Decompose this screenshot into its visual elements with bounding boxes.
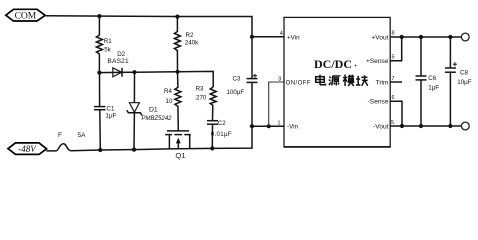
svg-text:-Vin: -Vin	[287, 124, 299, 131]
svg-text:+Vin: +Vin	[287, 34, 300, 41]
svg-text:10: 10	[166, 98, 173, 105]
svg-text:PMBZ5242: PMBZ5242	[142, 116, 173, 122]
svg-text:D1: D1	[149, 107, 158, 114]
svg-text:5k: 5k	[104, 47, 111, 54]
svg-text:1μF: 1μF	[428, 84, 439, 91]
svg-text:Q1: Q1	[175, 151, 185, 160]
svg-text:240k: 240k	[185, 40, 199, 47]
svg-text:7: 7	[392, 76, 395, 82]
svg-text:C1: C1	[107, 106, 115, 113]
svg-text:270: 270	[196, 95, 207, 102]
svg-text:BAS21: BAS21	[107, 58, 129, 65]
svg-text:3: 3	[278, 76, 281, 82]
svg-text:R2: R2	[186, 32, 194, 39]
svg-text:4: 4	[280, 31, 283, 37]
svg-text:-48V: -48V	[18, 144, 37, 154]
svg-text:Trim: Trim	[376, 79, 389, 86]
svg-text:8: 8	[392, 31, 395, 37]
svg-text:ON/OFF: ON/OFF	[286, 80, 311, 86]
svg-text:DC/DC: DC/DC	[314, 57, 352, 71]
svg-text:6: 6	[392, 95, 395, 101]
svg-text:D2: D2	[117, 51, 125, 58]
svg-text:10μF: 10μF	[457, 79, 471, 86]
svg-text:5: 5	[391, 120, 394, 126]
svg-text:R4: R4	[164, 88, 172, 95]
svg-text:1μF: 1μF	[106, 113, 117, 120]
svg-text:100μF: 100μF	[227, 89, 245, 96]
svg-text:C2: C2	[218, 120, 226, 127]
svg-text:C6: C6	[428, 75, 436, 82]
svg-text:COM: COM	[15, 12, 37, 22]
svg-text:F: F	[58, 132, 62, 139]
svg-text:5: 5	[392, 54, 395, 60]
svg-text:5A: 5A	[78, 132, 87, 139]
svg-text:+Sense: +Sense	[366, 58, 389, 65]
svg-text:-Vout: -Vout	[373, 123, 389, 130]
svg-text:R3: R3	[196, 86, 204, 93]
svg-text:C3: C3	[233, 76, 241, 83]
svg-text:+Vout: +Vout	[371, 34, 388, 41]
svg-text:-Sense: -Sense	[368, 98, 389, 105]
svg-text:C8: C8	[460, 70, 468, 77]
svg-text:0.01μF: 0.01μF	[211, 131, 232, 138]
svg-text:R1: R1	[104, 38, 112, 45]
svg-text:1: 1	[278, 120, 281, 126]
